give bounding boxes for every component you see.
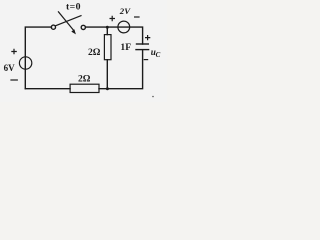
switch blade [56,16,81,26]
wire top-right segment from switch to corner and down to capacitor [86,27,143,44]
wire top-left segment and left vertical wire [25,27,51,89]
resistor R2 2ohm horizontal body [70,84,99,92]
switch actuate arrow [58,12,74,31]
svg-text:2Ω: 2Ω [88,47,101,58]
minus sign of capacitor [144,59,149,61]
wire resistor branch bottom [106,60,108,89]
junction node bottom [106,87,109,90]
voltage source V1 2V circle [118,21,130,33]
minus sign of 2V source [134,16,140,18]
svg-text:C: C [156,51,161,59]
svg-text:1F: 1F [120,42,131,53]
plus sign of capacitor [145,35,150,40]
svg-text:2Ω: 2Ω [78,74,91,85]
plus sign of 6V source [11,49,16,54]
junction node top [106,26,109,29]
svg-text:6V: 6V [4,63,16,73]
capacitor C1 top plate [137,43,149,45]
switch contact circle right [81,25,85,29]
minus sign of 6V source [10,79,18,81]
resistor R1 2ohm vertical body [104,35,111,60]
switch arrowhead [71,29,76,34]
svg-text:2V: 2V [119,6,131,16]
voltage source V2 6V circle [19,57,31,69]
wire resistor branch top [106,27,108,34]
plus sign of 2V source [110,16,116,21]
capacitor C1 bottom plate [136,49,149,51]
wire bottom-left segment [25,88,70,90]
wire bottom-right segment [99,50,143,89]
switch contact circle left [51,25,55,29]
stray speck [152,96,154,98]
svg-text:t=0: t=0 [66,1,81,12]
